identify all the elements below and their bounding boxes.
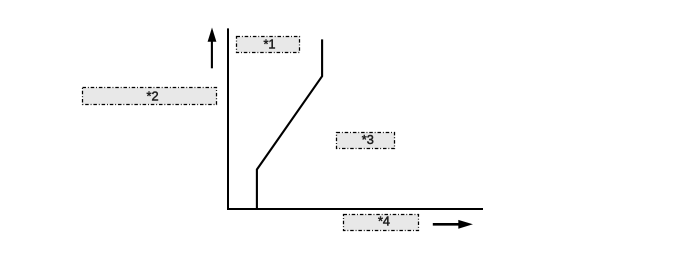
svg-text:*2: *2 [147,88,159,103]
svg-text:*3: *3 [362,132,374,147]
svg-text:*4: *4 [378,214,390,229]
svg-text:*1: *1 [263,36,275,51]
